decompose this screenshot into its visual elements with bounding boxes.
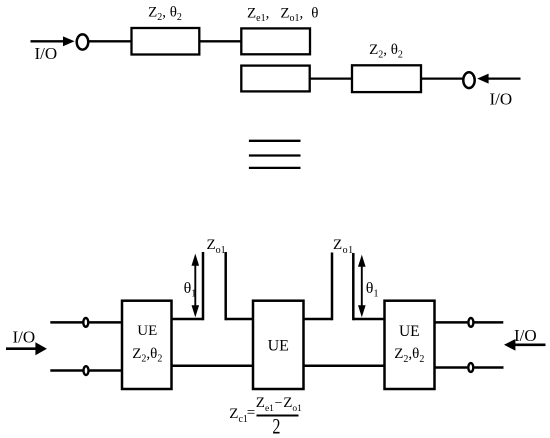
port circle: bottom-right upper — [468, 318, 473, 327]
wire: bottom-right lower lead — [474, 366, 503, 369]
coupled line lower conductor Ze1,Zo1 — [241, 66, 309, 92]
unit element UE Z2,theta2 (left box) — [122, 301, 172, 389]
transmission line section Z2,theta2 (top right box) — [352, 65, 421, 92]
wire: right Z2 line to port — [421, 77, 463, 79]
svg-text:=: = — [247, 405, 255, 421]
transmission line section Z2,theta2 (top left box) — [132, 28, 200, 55]
svg-text:Zc1: Zc1 — [229, 406, 248, 425]
coupled line upper conductor Ze1,Zo1 — [241, 28, 310, 54]
svg-text:I/O: I/O — [514, 326, 537, 345]
open stub 2 right conductor — [352, 253, 355, 320]
wire: bottom-right lower lead from UE box — [435, 366, 468, 369]
wire: bottom-left upper lead to UE box — [89, 321, 122, 324]
wire: Z2 line to coupled-line section — [199, 40, 241, 42]
open stub 1 left conductor — [202, 252, 205, 320]
svg-text:2: 2 — [272, 415, 280, 438]
svg-text:Ze1−Zo1: Ze1−Zo1 — [256, 395, 302, 414]
svg-text:UE: UE — [399, 323, 420, 340]
dimension arrow theta1 (stub 2, double headed) — [358, 255, 366, 318]
wire: bottom-right upper lead — [474, 321, 503, 324]
port circle: bottom-right lower — [468, 363, 473, 372]
svg-text:I/O: I/O — [13, 328, 36, 347]
port circle: bottom-left upper — [83, 318, 88, 327]
wire: stub 2 to right UE box — [353, 318, 384, 321]
svg-text:I/O: I/O — [35, 44, 58, 63]
wire: center UE box to stub 2 — [304, 318, 333, 321]
unit element UE Z2,theta2 (right box) — [385, 301, 435, 389]
wire: port to line Z2 — [89, 40, 132, 42]
wire: lower link left UE to center UE — [172, 364, 254, 367]
wire: bottom-left lower lead — [50, 369, 82, 372]
open stub 1 right conductor — [224, 252, 227, 320]
svg-text:Zo1: Zo1 — [207, 237, 226, 256]
wire: lower link center UE to right UE — [304, 364, 385, 367]
arrow: bottom-right input direction (points left) — [504, 339, 546, 351]
svg-text:Z2, θ2: Z2, θ2 — [369, 42, 403, 61]
arrowhead: top-right input (points left) — [477, 74, 488, 84]
port circle: bottom-left lower — [84, 366, 89, 375]
wire: coupled line to right Z2 line — [310, 77, 352, 79]
svg-text:θ1: θ1 — [366, 280, 379, 300]
wire: stub 1 to center UE box — [226, 318, 253, 321]
wire: bottom-right upper lead from UE box — [435, 321, 468, 324]
wire: top-left input lead — [31, 40, 65, 42]
wire: left UE box to stub 1 — [172, 318, 204, 321]
dimension arrow theta1 (stub 1, double headed) — [192, 254, 200, 318]
equivalence symbol line 2 — [249, 154, 301, 156]
arrow: bottom-left input direction (points right) — [6, 342, 47, 355]
equivalence symbol line 1 — [249, 140, 301, 142]
svg-text:UE: UE — [137, 323, 157, 339]
svg-text:UE: UE — [268, 338, 289, 355]
svg-text:I/O: I/O — [490, 89, 513, 108]
svg-text:Z2, θ2: Z2, θ2 — [148, 5, 182, 24]
svg-text:Zo1: Zo1 — [333, 237, 354, 256]
equivalence symbol line 3 — [249, 167, 301, 169]
wire: bottom-left lower lead to UE box — [90, 369, 123, 372]
port circle: top-left I/O — [77, 34, 89, 49]
port circle: top-right I/O — [463, 72, 474, 88]
wire: top-right input lead — [488, 77, 521, 79]
open stub 2 left conductor — [331, 253, 334, 321]
svg-text:Ze1,Zo1,θ: Ze1,Zo1,θ — [247, 6, 318, 25]
unit element UE (center box) — [253, 301, 304, 389]
wire: bottom-left upper lead — [50, 321, 82, 324]
equation Zc1 = (Ze1 - Zo1)/2 — [229, 395, 302, 438]
arrowhead: top-left input (points right) — [63, 36, 75, 46]
